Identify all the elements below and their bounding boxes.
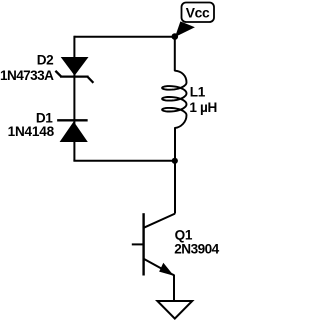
- transistor Q1 base stub: [132, 243, 144, 245]
- svg-text:1N4148: 1N4148: [8, 124, 55, 139]
- wire left vertical: [73, 36, 75, 161]
- svg-text:L1: L1: [190, 84, 206, 99]
- wire top horizontal: [74, 36, 174, 38]
- power flag Vcc triangle pointer: [175, 21, 195, 37]
- svg-text:Vcc: Vcc: [186, 6, 210, 21]
- inductor L1 coil: [162, 71, 186, 128]
- diode D2 zener bar with hooks: [56, 72, 92, 82]
- wire collector diagonal: [144, 214, 175, 228]
- node bottom junction dot: [172, 158, 178, 164]
- svg-text:Q1: Q1: [175, 228, 193, 243]
- wire emitter vertical: [173, 275, 175, 301]
- transistor Q1 emitter arrowhead: [160, 264, 172, 274]
- wire right vertical upper: [174, 37, 176, 71]
- diode D2 zener triangle: [61, 57, 89, 76]
- transistor Q1 base bar: [142, 213, 144, 275]
- diode D1 triangle: [60, 122, 88, 143]
- transistor Q1 emitter diagonal: [144, 259, 170, 274]
- svg-text:1 µH: 1 µH: [189, 100, 217, 115]
- svg-text:2N3904: 2N3904: [174, 242, 219, 257]
- svg-text:D2: D2: [37, 53, 54, 68]
- ground symbol: [157, 301, 192, 319]
- wire emitter corner: [171, 274, 175, 276]
- diode D1 bar: [58, 119, 86, 121]
- node Vcc junction dot: [172, 33, 179, 40]
- power flag Vcc box: [182, 3, 215, 23]
- svg-text:1N4733A: 1N4733A: [0, 68, 54, 83]
- wire right vertical middle: [174, 128, 176, 214]
- wire bottom horizontal: [73, 160, 174, 162]
